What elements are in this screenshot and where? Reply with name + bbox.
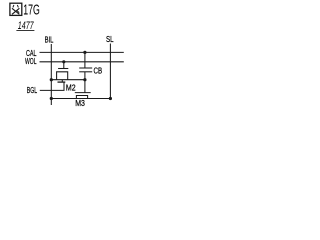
svg-text:SL: SL xyxy=(106,34,114,44)
svg-text:17G: 17G xyxy=(23,3,40,19)
svg-text:M2: M2 xyxy=(66,82,76,92)
svg-text:WOL: WOL xyxy=(25,56,37,66)
svg-text:BIL: BIL xyxy=(45,34,54,44)
svg-text:M3: M3 xyxy=(75,98,85,108)
svg-text:BGL: BGL xyxy=(27,85,38,95)
svg-text:CB: CB xyxy=(94,66,103,76)
